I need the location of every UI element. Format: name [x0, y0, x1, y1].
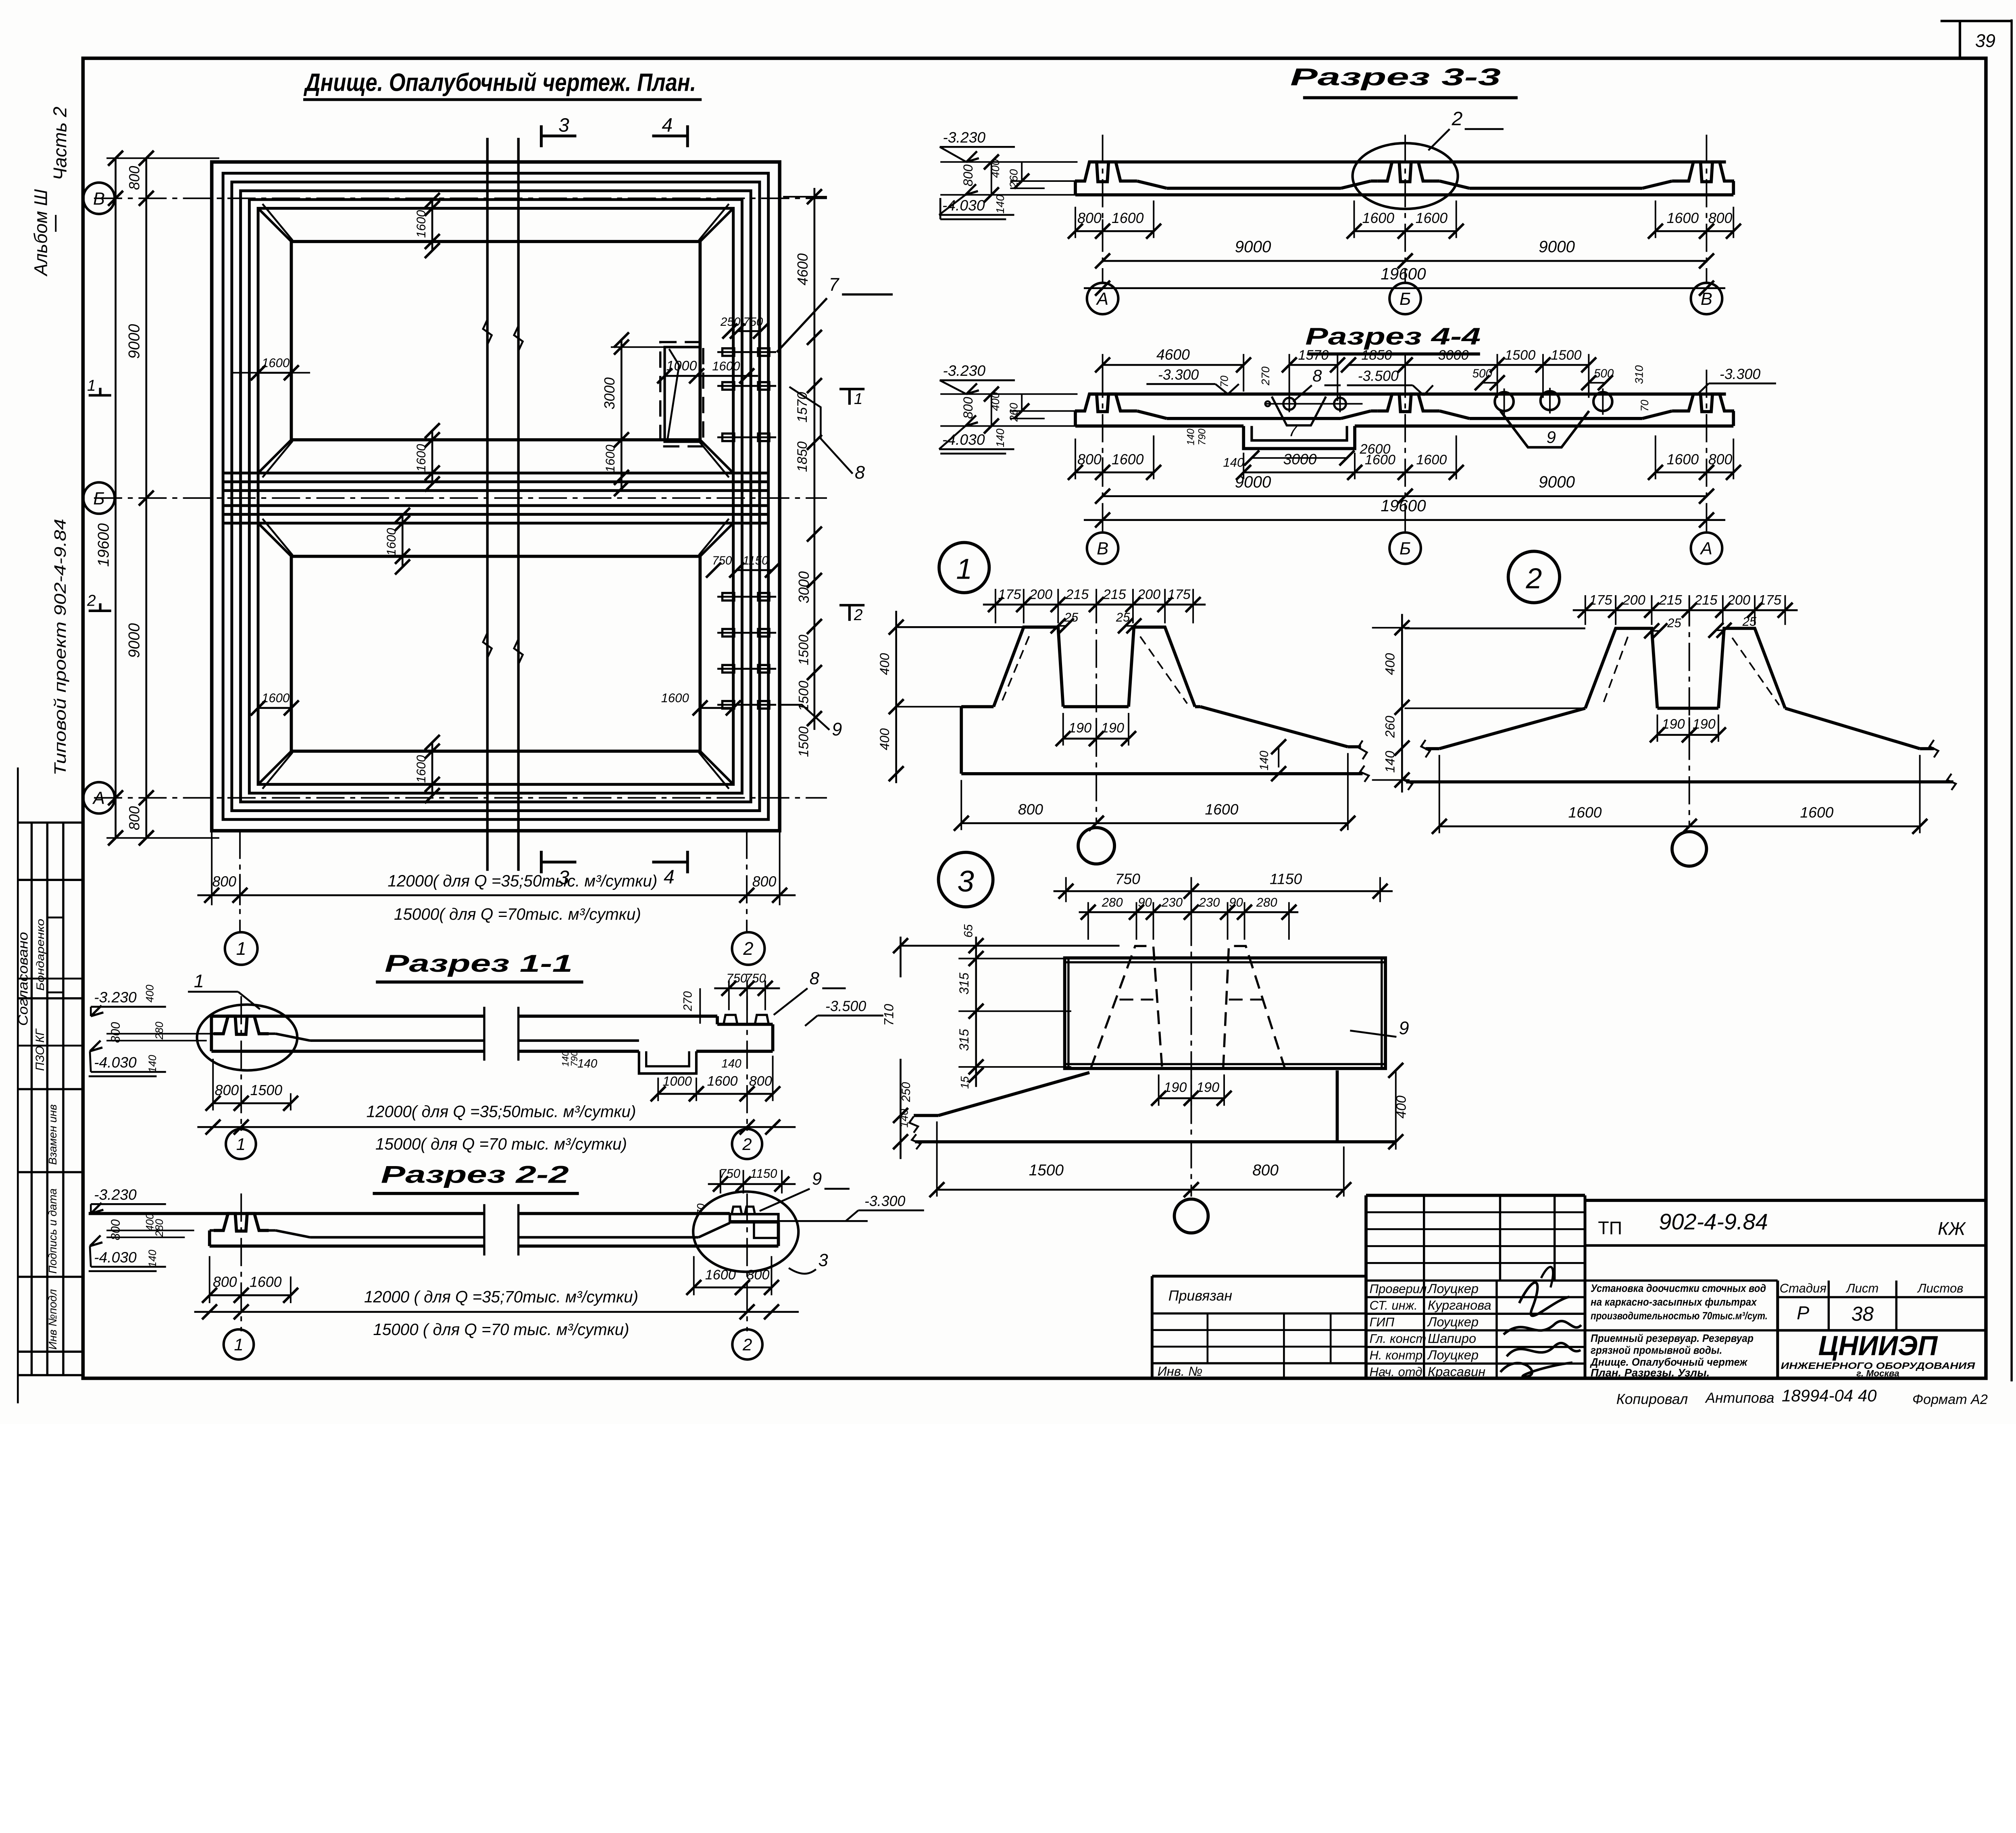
svg-text:2: 2 — [743, 938, 753, 959]
detail 1 dim 190 190 — [1062, 713, 1064, 746]
svg-text:200: 200 — [1137, 587, 1160, 602]
svg-text:190: 190 — [1693, 717, 1716, 732]
plan cut mark 2 right — [839, 604, 864, 607]
section 2-2 axis circle 2 — [732, 1329, 762, 1360]
svg-text:7: 7 — [1288, 421, 1298, 440]
svg-text:Установка доочистки сточных во: Установка доочистки сточных вод — [1591, 1282, 1766, 1294]
svg-text:7: 7 — [829, 274, 840, 295]
svg-text:1600: 1600 — [1416, 452, 1447, 467]
section 2-2 axis circle 1 — [224, 1329, 254, 1360]
svg-text:Формат А2: Формат А2 — [1912, 1392, 1988, 1407]
svg-text:Инв. №: Инв. № — [1158, 1364, 1203, 1379]
title block signatures scribbles — [1519, 1283, 1569, 1316]
section 2-2 break lines — [483, 1204, 486, 1255]
section 1-1 dims 750 750 — [728, 981, 730, 1010]
section 1-1 break lines — [483, 1007, 486, 1061]
svg-text:90: 90 — [1138, 895, 1152, 909]
svg-text:1850: 1850 — [1361, 348, 1392, 363]
svg-text:9000: 9000 — [1539, 473, 1575, 491]
svg-text:310: 310 — [1633, 365, 1645, 384]
svg-text:750: 750 — [743, 315, 763, 329]
svg-text:А: А — [92, 789, 105, 808]
detail 3 far left chain 710 250 140 — [900, 937, 902, 977]
svg-text:КЖ: КЖ — [1938, 1218, 1966, 1239]
svg-text:1500: 1500 — [796, 727, 811, 757]
svg-text:1600: 1600 — [414, 755, 428, 783]
detail 1 axis and node circle — [1095, 595, 1098, 824]
plan slope dims 1600 — [431, 200, 433, 250]
svg-text:800: 800 — [127, 806, 143, 830]
section 4-4 hopper 9 trapezoid — [1500, 411, 1589, 447]
section 3-3 detail ellipse 2 — [1353, 143, 1458, 209]
section 2-2 dims 750 1150 — [719, 1170, 721, 1194]
section 1-1 detail ellipse 1 — [197, 1004, 298, 1070]
svg-text:1600: 1600 — [1667, 451, 1699, 467]
page edge line left — [17, 767, 19, 1403]
svg-text:Согласовано: Согласовано — [15, 932, 31, 1026]
svg-text:-4.030: -4.030 — [94, 1054, 137, 1071]
svg-text:Днище. Опалубочный чертеж: Днище. Опалубочный чертеж — [1590, 1356, 1748, 1368]
svg-text:производительностью 70тыс.м³/с: производительностью 70тыс.м³/сут. — [1591, 1310, 1768, 1322]
svg-text:ПЗО КГ: ПЗО КГ — [33, 1028, 47, 1071]
section 4-4 hopper circles 9 — [1495, 392, 1514, 411]
svg-text:2: 2 — [1452, 108, 1463, 130]
section 1-1 right end step — [715, 1016, 719, 1024]
svg-text:Б: Б — [1400, 539, 1411, 558]
plan bottom dim 12000 15000 — [197, 894, 796, 896]
axis circle А — [83, 782, 115, 814]
svg-text:800: 800 — [127, 166, 143, 190]
svg-text:1600: 1600 — [250, 1274, 282, 1290]
svg-text:1150: 1150 — [750, 1166, 778, 1181]
plan section mark 4 bottom — [686, 851, 689, 873]
plan dim extension lines left — [106, 157, 219, 159]
svg-text:1600: 1600 — [414, 444, 428, 472]
svg-text:8: 8 — [1312, 366, 1322, 385]
section 1-1 axis circle 2 — [732, 1129, 762, 1159]
title block upper sub-table — [1366, 1211, 1585, 1214]
svg-text:3000: 3000 — [602, 377, 618, 410]
svg-text:Разрез 1-1: Разрез 1-1 — [385, 950, 573, 977]
svg-text:2: 2 — [1526, 562, 1542, 595]
svg-text:1600: 1600 — [384, 528, 398, 556]
svg-text:ГИП: ГИП — [1370, 1315, 1395, 1329]
section 1-1 axis dash lines — [240, 996, 242, 1131]
svg-text:140: 140 — [1223, 456, 1244, 470]
svg-text:70: 70 — [695, 1203, 707, 1216]
svg-text:280: 280 — [1256, 895, 1278, 909]
svg-text:3000: 3000 — [1283, 450, 1317, 467]
svg-text:215: 215 — [1659, 592, 1683, 608]
svg-text:190: 190 — [1101, 720, 1124, 735]
svg-text:-3.300: -3.300 — [864, 1193, 905, 1209]
svg-text:140: 140 — [577, 1057, 598, 1071]
svg-text:140: 140 — [1185, 429, 1196, 446]
svg-text:190: 190 — [1662, 717, 1685, 732]
svg-text:1: 1 — [236, 1135, 246, 1154]
svg-text:280: 280 — [1102, 895, 1123, 909]
svg-text:Лоуцкер: Лоуцкер — [1427, 1314, 1479, 1329]
svg-text:800: 800 — [752, 874, 777, 890]
svg-text:-3.230: -3.230 — [94, 1186, 137, 1203]
svg-text:Типовой проект 902-4-9.84: Типовой проект 902-4-9.84 — [51, 519, 69, 776]
svg-text:400: 400 — [877, 728, 892, 750]
svg-text:Копировал: Копировал — [1616, 1391, 1688, 1407]
svg-text:70: 70 — [1639, 400, 1651, 412]
svg-text:400: 400 — [144, 985, 156, 1002]
svg-text:800: 800 — [1708, 210, 1733, 226]
svg-text:Лоуцкер: Лоуцкер — [1427, 1348, 1479, 1362]
title block signature rows — [1366, 1279, 1585, 1282]
detail 1 profile — [898, 626, 1024, 628]
detail 3 top dims 750 1150 — [1065, 877, 1067, 902]
detail 2 profile — [1405, 627, 1585, 629]
svg-text:План. Разрезы. Узлы.: План. Разрезы. Узлы. — [1591, 1367, 1710, 1379]
margin stamp table 2 — [18, 1171, 82, 1174]
svg-text:3: 3 — [558, 114, 569, 136]
svg-text:9000: 9000 — [1539, 237, 1575, 256]
plan axis lines — [94, 197, 827, 199]
plan cut mark 2 left — [89, 609, 111, 612]
svg-text:3: 3 — [818, 1251, 828, 1270]
detail 3 dashed trapezoids — [1091, 946, 1162, 1069]
detail 3 bottom dims 1500 800 — [936, 1121, 938, 1196]
axis circle Б — [83, 482, 115, 514]
svg-text:190: 190 — [1196, 1080, 1219, 1095]
svg-text:750: 750 — [719, 1166, 741, 1181]
svg-text:2: 2 — [87, 592, 96, 609]
plan bottom dim 800 left — [212, 894, 240, 896]
svg-text:19600: 19600 — [95, 523, 112, 567]
plan axis circle 2 — [732, 932, 765, 965]
svg-text:65: 65 — [962, 924, 975, 937]
svg-text:19600: 19600 — [1381, 265, 1426, 283]
svg-text:12000( для Q =35;50тыс. м³/сут: 12000( для Q =35;50тыс. м³/сутки) — [367, 1102, 636, 1121]
svg-text:1500: 1500 — [796, 635, 811, 665]
svg-text:800: 800 — [212, 874, 236, 890]
plan section mark 3 top — [539, 125, 543, 147]
svg-text:200: 200 — [1727, 592, 1750, 608]
svg-text:Гл. конст: Гл. конст — [1370, 1331, 1427, 1346]
detail 2 dim 190 190 — [1656, 714, 1658, 742]
plan left dimension chain 800-9000-9000-800 — [145, 158, 148, 838]
svg-text:1150: 1150 — [743, 554, 768, 567]
svg-text:-3.230: -3.230 — [94, 989, 137, 1006]
svg-text:39: 39 — [1975, 31, 1995, 51]
svg-text:9: 9 — [1399, 1018, 1409, 1038]
svg-text:902-4-9.84: 902-4-9.84 — [1659, 1209, 1768, 1234]
svg-text:Б: Б — [1400, 290, 1411, 309]
svg-text:200: 200 — [1622, 592, 1645, 608]
svg-text:1600: 1600 — [262, 691, 290, 705]
svg-text:140: 140 — [994, 195, 1006, 214]
section 4-4 dim row 19600 — [1084, 519, 1725, 521]
svg-text:Взамен инв: Взамен инв — [46, 1104, 59, 1165]
svg-text:15000( для Q =70 тыс. м³/сутки: 15000( для Q =70 тыс. м³/сутки) — [375, 1135, 627, 1153]
section 3-3 level extension lines — [940, 161, 1077, 163]
svg-text:18994-04 40: 18994-04 40 — [1782, 1386, 1877, 1405]
svg-text:Красавин: Красавин — [1428, 1364, 1485, 1379]
section 2-2 right end plate — [730, 1214, 778, 1222]
svg-text:140: 140 — [1383, 751, 1397, 773]
svg-text:грязной промывной воды.: грязной промывной воды. — [1591, 1344, 1722, 1356]
section 3-3 dim row 19600 — [1084, 287, 1725, 290]
svg-text:90: 90 — [1229, 895, 1243, 909]
section 1-1 dims 1000 1600 800 right — [657, 1077, 659, 1101]
svg-text:1600: 1600 — [414, 210, 428, 238]
section 1-1 right sump — [639, 1051, 696, 1073]
svg-text:400: 400 — [1383, 653, 1397, 675]
plan axis circle 1 — [225, 932, 258, 965]
page edge line right — [2010, 19, 2013, 1381]
svg-text:1600: 1600 — [1568, 804, 1602, 821]
svg-text:4: 4 — [662, 114, 673, 136]
detail 1 bottom dims 800 1600 — [960, 780, 962, 830]
svg-text:Проверил: Проверил — [1370, 1282, 1427, 1296]
svg-text:710: 710 — [881, 1004, 896, 1026]
svg-text:Подпись и дата: Подпись и дата — [46, 1188, 59, 1273]
svg-text:1600: 1600 — [1800, 804, 1833, 821]
svg-text:315: 315 — [956, 972, 971, 994]
svg-text:230: 230 — [1161, 895, 1183, 909]
svg-text:2: 2 — [742, 1335, 752, 1354]
svg-text:3: 3 — [957, 864, 974, 898]
title block TP cell — [1585, 1244, 1986, 1247]
detail chain 400 260 140 — [1401, 614, 1403, 793]
svg-text:800: 800 — [1077, 451, 1102, 467]
svg-text:270: 270 — [1259, 366, 1272, 385]
svg-text:270: 270 — [681, 991, 694, 1012]
svg-text:1150: 1150 — [1270, 870, 1302, 887]
svg-text:1500: 1500 — [1505, 348, 1535, 363]
section 3-3 slab profile — [1089, 160, 1726, 164]
svg-text:1850: 1850 — [795, 442, 810, 472]
svg-text:В: В — [1097, 539, 1108, 558]
section 1-1 slab profile — [211, 1014, 484, 1018]
svg-text:140: 140 — [721, 1057, 741, 1071]
svg-text:190: 190 — [1164, 1080, 1187, 1095]
svg-text:38: 38 — [1851, 1302, 1874, 1325]
section 2-2 dims 800 1600 left — [208, 1256, 210, 1303]
svg-text:1: 1 — [854, 390, 863, 408]
svg-text:800: 800 — [960, 397, 975, 419]
svg-text:г. Москва: г. Москва — [1856, 1369, 1899, 1379]
svg-text:12000( для Q =35;50тыс. м³/сут: 12000( для Q =35;50тыс. м³/сутки) — [387, 872, 657, 890]
svg-text:на каркасно-засыпных фильтрах: на каркасно-засыпных фильтрах — [1591, 1296, 1757, 1308]
svg-text:140: 140 — [994, 428, 1006, 447]
axis circle В — [83, 183, 115, 214]
svg-text:-4.030: -4.030 — [942, 197, 985, 214]
svg-text:1: 1 — [194, 971, 204, 991]
svg-text:Курганова: Курганова — [1428, 1298, 1491, 1312]
plan section mark 3 bottom — [539, 851, 543, 873]
svg-text:790: 790 — [569, 1051, 579, 1066]
svg-text:800: 800 — [215, 1082, 239, 1098]
svg-text:-3.500: -3.500 — [1358, 368, 1399, 384]
svg-text:-3.230: -3.230 — [943, 362, 985, 379]
plan nested wall rectangles — [212, 162, 779, 831]
svg-text:Стадия: Стадия — [1780, 1281, 1826, 1295]
plan left dimension chain 19600 — [115, 158, 117, 838]
svg-text:175: 175 — [1758, 592, 1782, 608]
section 3-3 small chain 400 260 140 — [987, 156, 1031, 157]
section 1-1 dims 800 1500 — [212, 1059, 214, 1110]
svg-text:Днище. Опалубочный чертеж. Пла: Днище. Опалубочный чертеж. План. — [303, 69, 696, 96]
plan opening solid rect — [665, 347, 700, 442]
svg-text:8: 8 — [810, 969, 819, 988]
svg-text:1: 1 — [236, 938, 246, 959]
section 3-3 dim row 1 — [1075, 207, 1077, 238]
svg-text:790: 790 — [1196, 429, 1208, 446]
svg-text:1600: 1600 — [1112, 210, 1144, 226]
svg-text:4600: 4600 — [1156, 346, 1190, 363]
svg-text:280: 280 — [153, 1022, 165, 1040]
plan bottom cell pit — [291, 556, 700, 751]
svg-text:Лист: Лист — [1845, 1281, 1879, 1295]
svg-text:Шапиро: Шапиро — [1428, 1331, 1476, 1346]
svg-text:800: 800 — [960, 165, 975, 186]
detail 3 node circle — [1175, 1199, 1208, 1233]
svg-text:800: 800 — [1708, 451, 1733, 467]
svg-text:Антипова: Антипова — [1705, 1390, 1774, 1406]
svg-text:Р: Р — [1797, 1302, 1809, 1323]
page number box — [1941, 19, 2012, 23]
svg-text:Разрез 4-4: Разрез 4-4 — [1305, 323, 1481, 350]
section 4-4 lower dim rows — [1075, 439, 1077, 479]
svg-text:1600: 1600 — [1362, 210, 1395, 226]
section 2-2 axis dash lines — [240, 1194, 242, 1331]
svg-text:215: 215 — [1103, 587, 1127, 602]
detail 2 top dims — [1584, 595, 1586, 625]
svg-text:1600: 1600 — [705, 1267, 736, 1283]
detail 3 dim 190 190 — [1158, 1075, 1160, 1106]
svg-text:15000( для Q =70тыс. м³/сутки): 15000( для Q =70тыс. м³/сутки) — [394, 905, 641, 923]
section 2-2 long dim 12000 15000 — [194, 1311, 799, 1313]
title block border — [1364, 1196, 1368, 1379]
svg-text:В: В — [93, 189, 105, 208]
section 2-2 dims 1600 800 right — [693, 1256, 695, 1295]
svg-text:Бондаренко: Бондаренко — [34, 919, 46, 991]
svg-text:15000 ( для Q =70 тыс. м³/сутк: 15000 ( для Q =70 тыс. м³/сутки) — [373, 1320, 629, 1339]
section 4-4 slab profile — [1089, 392, 1726, 396]
svg-text:Н. контр: Н. контр — [1370, 1348, 1423, 1362]
margin stamp table — [18, 821, 82, 824]
svg-text:140: 140 — [146, 1250, 158, 1267]
svg-text:315: 315 — [956, 1029, 971, 1051]
plan axis line 1 vertical — [239, 831, 241, 932]
svg-text:-3.230: -3.230 — [943, 129, 985, 146]
svg-text:1600: 1600 — [1112, 451, 1144, 467]
svg-text:25: 25 — [1742, 614, 1757, 629]
section 4-4 top dim row — [1102, 354, 1104, 392]
svg-text:750: 750 — [745, 971, 766, 985]
plan section mark 4 top — [686, 125, 689, 147]
svg-text:ТП: ТП — [1598, 1218, 1622, 1238]
svg-text:25: 25 — [1667, 616, 1681, 630]
plan opening dashed rect — [660, 342, 703, 446]
svg-text:Разрез 3-3: Разрез 3-3 — [1290, 63, 1501, 90]
svg-text:9: 9 — [812, 1169, 822, 1189]
svg-text:1570: 1570 — [1298, 348, 1329, 363]
svg-text:400: 400 — [877, 653, 892, 675]
svg-text:175: 175 — [1589, 592, 1612, 608]
section 4-4 axis dash lines — [1102, 370, 1104, 533]
svg-text:215: 215 — [1694, 592, 1718, 608]
svg-text:9000: 9000 — [1235, 473, 1271, 491]
section 1-1 right groove detail 8 — [724, 1015, 737, 1024]
plan top cell pit — [291, 242, 700, 440]
svg-text:1570: 1570 — [795, 392, 810, 423]
svg-text:800: 800 — [213, 1274, 237, 1290]
svg-text:1600: 1600 — [707, 1074, 737, 1089]
svg-text:1600: 1600 — [1205, 801, 1238, 818]
section 1-1 long dim 12000 15000 — [197, 1126, 796, 1128]
section 2-2 slab profile — [89, 1212, 484, 1216]
svg-text:500: 500 — [1472, 367, 1493, 380]
svg-text:800: 800 — [749, 1074, 772, 1089]
plan wall embeds bottom cell — [717, 596, 776, 598]
svg-text:1600: 1600 — [603, 444, 617, 473]
detail 3 dims 280 90 230 — [1087, 902, 1089, 939]
svg-text:Разрез 2-2: Разрез 2-2 — [381, 1160, 569, 1188]
svg-text:1: 1 — [234, 1335, 243, 1354]
svg-text:Часть 2: Часть 2 — [50, 106, 71, 180]
svg-text:190: 190 — [1068, 720, 1091, 735]
section 3-3 axis dash lines — [1102, 135, 1104, 283]
svg-text:140: 140 — [146, 1055, 158, 1073]
detail 3 left chain 315 315 15 — [975, 937, 977, 1087]
svg-text:Привязан: Привязан — [1168, 1288, 1232, 1304]
svg-text:8: 8 — [855, 462, 865, 483]
svg-text:ЦНИИЭП: ЦНИИЭП — [1818, 1331, 1938, 1361]
svg-text:230: 230 — [1199, 895, 1220, 909]
svg-text:9: 9 — [832, 719, 842, 739]
svg-text:СТ. инж.: СТ. инж. — [1370, 1298, 1418, 1312]
svg-text:Листов: Листов — [1917, 1281, 1963, 1295]
plan axis line 2 vertical — [746, 831, 748, 932]
svg-text:280: 280 — [153, 1219, 165, 1237]
svg-text:3000: 3000 — [1438, 348, 1469, 363]
svg-text:-3.300: -3.300 — [1720, 366, 1760, 382]
detail 3 bottom slab — [939, 1073, 1089, 1115]
svg-text:1: 1 — [956, 553, 972, 585]
svg-text:2: 2 — [742, 1135, 752, 1154]
section 4-4 sump pit — [1243, 426, 1355, 449]
svg-text:175: 175 — [1168, 587, 1191, 602]
detail circle 2 — [1508, 551, 1560, 602]
svg-text:Нач. отд: Нач. отд — [1370, 1365, 1422, 1379]
svg-text:9000: 9000 — [1235, 237, 1271, 256]
svg-text:А: А — [1095, 290, 1108, 309]
svg-text:19600: 19600 — [1381, 496, 1426, 515]
svg-text:-4.030: -4.030 — [94, 1249, 137, 1266]
svg-text:1: 1 — [87, 377, 96, 394]
svg-text:800: 800 — [108, 1022, 123, 1043]
svg-text:9000: 9000 — [126, 324, 143, 359]
svg-text:2600: 2600 — [1359, 442, 1390, 457]
title block stage sheet columns — [1778, 1296, 1986, 1299]
section 3-3 dim row 9000 — [1103, 260, 1405, 262]
svg-text:750: 750 — [1115, 870, 1140, 887]
privyazan table — [1152, 1275, 1366, 1278]
svg-text:3000: 3000 — [796, 571, 812, 604]
svg-text:140: 140 — [898, 1109, 910, 1128]
svg-text:4: 4 — [664, 866, 675, 888]
plan opening dims 3000 1600 vertical — [620, 340, 623, 489]
detail 3 beam — [1065, 958, 1386, 1069]
section 3-3 axis circles — [1087, 283, 1118, 315]
svg-text:215: 215 — [1065, 587, 1089, 602]
